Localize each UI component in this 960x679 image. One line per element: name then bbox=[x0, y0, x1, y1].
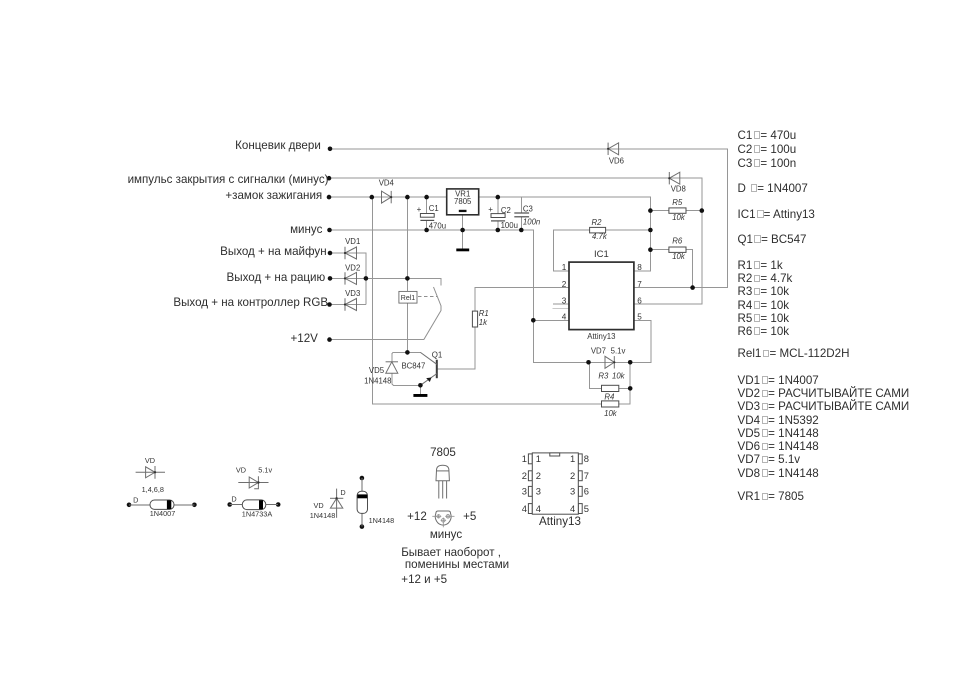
junction Q1 emitter bbox=[418, 383, 423, 388]
legend Attiny13 DIP-8 body bbox=[528, 453, 582, 514]
junction diode apex dots bbox=[154, 148, 671, 500]
svg-text:VD: VD bbox=[145, 456, 155, 465]
node Концевик input bbox=[328, 147, 333, 152]
wire VD2 output row bbox=[330, 278, 441, 285]
op-amp IC1 box (Attiny13) bbox=[569, 249, 634, 341]
resistor R3 bbox=[602, 385, 619, 391]
node RGB input bbox=[327, 302, 332, 307]
junction pin7 R6 bbox=[690, 285, 695, 290]
junction VD2 row coil bbox=[405, 276, 410, 281]
svg-text:+: + bbox=[417, 205, 422, 214]
svg-text:VD8: VD8 bbox=[671, 184, 686, 193]
svg-text:D: D bbox=[340, 488, 345, 497]
legend 1N4148 package vertical bbox=[357, 476, 394, 529]
svg-text:Attiny13: Attiny13 bbox=[587, 332, 615, 341]
legend note line 3 bbox=[401, 572, 447, 587]
svg-text:8: 8 bbox=[637, 263, 642, 272]
wire R6 row bbox=[650, 250, 692, 288]
svg-text:D: D bbox=[231, 494, 236, 503]
svg-text:5: 5 bbox=[637, 313, 642, 322]
wire R3 right bbox=[619, 387, 630, 389]
voltage regulator VR1 box bbox=[447, 189, 479, 215]
legend 7805 TO-92 bottom view bbox=[432, 511, 454, 527]
junction R5 left bbox=[648, 208, 653, 213]
node label Выход + на майфун bbox=[220, 244, 326, 259]
node майфун input bbox=[328, 251, 333, 256]
wire VD5 Q1 loop bottom bbox=[392, 373, 421, 385]
svg-text:5: 5 bbox=[584, 503, 589, 514]
svg-text:R6: R6 bbox=[672, 237, 683, 246]
diode VD5 bbox=[386, 362, 398, 373]
svg-text:BC847: BC847 bbox=[401, 362, 425, 371]
relay Rel1 actuator dashed link bbox=[418, 295, 437, 297]
junction R6 left bbox=[648, 247, 653, 252]
diode VD4 bbox=[382, 191, 392, 203]
svg-text:5.1v: 5.1v bbox=[611, 347, 626, 356]
junction C2 bottom bbox=[496, 228, 501, 233]
svg-text:1N4148: 1N4148 bbox=[364, 376, 391, 385]
svg-text:+: + bbox=[488, 205, 493, 214]
svg-text:1: 1 bbox=[562, 263, 567, 272]
legend label +5 bbox=[463, 509, 476, 524]
svg-text:R3: R3 bbox=[598, 372, 609, 381]
junction R2 right bbox=[648, 228, 653, 233]
svg-text:1N4733A: 1N4733A bbox=[242, 510, 273, 519]
svg-text:4: 4 bbox=[562, 313, 567, 322]
svg-text:2: 2 bbox=[536, 470, 541, 481]
svg-text:R5: R5 bbox=[672, 198, 683, 207]
wire R4 right to VD7 node bbox=[619, 362, 630, 404]
wire VD5 Q1 loop top bbox=[392, 352, 421, 361]
node импульс input bbox=[327, 176, 332, 181]
svg-text:VD: VD bbox=[314, 501, 324, 510]
wire R5 row bbox=[650, 210, 701, 212]
node label +замок зажигания bbox=[225, 188, 322, 203]
diode VD3 bbox=[345, 298, 357, 310]
junction замок-coil bbox=[405, 195, 410, 200]
junction VD7 left bbox=[586, 360, 591, 365]
svg-text:7: 7 bbox=[584, 470, 589, 481]
legend diode symbol VD 1N4007 bbox=[136, 466, 165, 479]
svg-text:1: 1 bbox=[536, 453, 541, 464]
wire R3 row bbox=[590, 362, 602, 388]
wire R1 to Q1 base bbox=[437, 327, 475, 369]
svg-text:1N4148: 1N4148 bbox=[310, 511, 336, 520]
svg-text:10k: 10k bbox=[672, 252, 686, 261]
svg-text:3: 3 bbox=[536, 486, 541, 497]
wire C3 stubs bbox=[520, 197, 522, 213]
svg-text:C2: C2 bbox=[501, 206, 511, 215]
parts list bbox=[738, 128, 797, 143]
resistor R2 bbox=[590, 227, 606, 233]
node замок input bbox=[327, 195, 332, 200]
svg-text:R1: R1 bbox=[479, 309, 489, 318]
node label импульс закрытия bbox=[128, 172, 329, 187]
diode VD7 bbox=[605, 356, 614, 368]
node label минус bbox=[290, 222, 322, 237]
wire pin 4 bbox=[533, 319, 569, 321]
svg-text:D: D bbox=[133, 496, 138, 505]
svg-text:2: 2 bbox=[570, 470, 575, 481]
node +12V input bbox=[327, 337, 332, 342]
wire pin 3 stub bbox=[553, 303, 569, 305]
wire VD1 output row bbox=[330, 253, 366, 305]
svg-text:4: 4 bbox=[570, 503, 575, 514]
wire relay coil vertical bbox=[406, 197, 408, 291]
legend label минус bbox=[416, 527, 476, 542]
svg-text:10k: 10k bbox=[604, 409, 618, 418]
svg-text:VD5: VD5 bbox=[369, 366, 385, 375]
svg-text:1: 1 bbox=[570, 453, 575, 464]
wire coil to Q1 collector node bbox=[406, 303, 408, 352]
svg-text:7805: 7805 bbox=[454, 197, 472, 206]
svg-text:R2: R2 bbox=[592, 218, 603, 227]
junction VR1 gnd bbox=[460, 228, 465, 233]
svg-text:1k: 1k bbox=[479, 318, 488, 327]
junction VD1 VD2 common bbox=[364, 276, 369, 281]
node минус input bbox=[327, 228, 332, 233]
svg-text:C1: C1 bbox=[429, 204, 439, 213]
node label +12V bbox=[291, 331, 318, 346]
legend 7805 TO-92 front view bbox=[436, 465, 449, 498]
svg-text:VD: VD bbox=[236, 465, 246, 474]
diode VD8 bbox=[669, 172, 680, 184]
svg-text:VD7: VD7 bbox=[591, 347, 606, 356]
svg-text:1,4,6,8: 1,4,6,8 bbox=[142, 485, 164, 494]
svg-text:1: 1 bbox=[522, 453, 527, 464]
svg-text:2: 2 bbox=[562, 280, 567, 289]
legend label 7805 bbox=[413, 445, 473, 460]
legend diode symbol VD 1N4148 vertical bbox=[330, 489, 343, 518]
svg-text:VD2: VD2 bbox=[345, 263, 360, 272]
wire VD3 output row bbox=[330, 304, 366, 306]
transistor Q1 bbox=[420, 352, 436, 385]
svg-text:VD4: VD4 bbox=[379, 178, 395, 187]
legend note line 1 bbox=[401, 545, 501, 560]
ground below VR1 bbox=[456, 249, 469, 252]
wire Q1 ground stub bbox=[419, 385, 421, 394]
resistor R5 bbox=[669, 208, 686, 213]
node рация input bbox=[328, 276, 333, 281]
svg-text:470u: 470u bbox=[429, 222, 446, 231]
svg-text:4: 4 bbox=[536, 503, 541, 514]
svg-text:Q1: Q1 bbox=[432, 350, 443, 359]
wire pin 2 to R1 bbox=[475, 288, 569, 312]
legend zener symbol VD 5.1v bbox=[238, 476, 268, 489]
svg-text:IC1: IC1 bbox=[594, 249, 609, 260]
junction R3 right bbox=[628, 386, 633, 391]
ground below Q1 bbox=[413, 394, 427, 397]
junction C1 top bbox=[424, 195, 429, 200]
svg-text:2: 2 bbox=[522, 470, 527, 481]
svg-text:4.7k: 4.7k bbox=[592, 232, 608, 241]
wire C2 stubs bbox=[497, 197, 499, 214]
svg-text:7: 7 bbox=[637, 280, 642, 289]
diode VD6 bbox=[608, 143, 619, 155]
svg-text:C3: C3 bbox=[523, 204, 533, 213]
diode VD2 bbox=[345, 272, 357, 284]
diode VD1 bbox=[345, 247, 357, 259]
svg-text:6: 6 bbox=[637, 296, 642, 305]
legend label +12 bbox=[377, 509, 427, 524]
wire C1 stubs bbox=[426, 197, 428, 213]
svg-text:3: 3 bbox=[522, 486, 527, 497]
node label Выход + на контроллер RGB bbox=[173, 295, 328, 310]
junction C3 bottom bbox=[519, 228, 524, 233]
svg-text:8: 8 bbox=[584, 453, 589, 464]
junction R5 right bbox=[700, 208, 705, 213]
junction C1 bottom bbox=[424, 228, 429, 233]
svg-text:VD3: VD3 bbox=[345, 289, 360, 298]
junction замок-xA bbox=[370, 195, 375, 200]
junction coil collector bbox=[405, 350, 410, 355]
svg-text:100u: 100u bbox=[501, 221, 518, 230]
node label Концевик двери bbox=[235, 138, 321, 153]
capacitor C2 bbox=[488, 205, 518, 230]
legend 1N4733A package bbox=[227, 494, 280, 518]
legend label Attiny13 bbox=[525, 514, 595, 529]
svg-text:1N4007: 1N4007 bbox=[150, 509, 176, 518]
svg-text:4: 4 bbox=[522, 503, 527, 514]
relay Rel1 contact blade bbox=[424, 287, 441, 340]
svg-text:6: 6 bbox=[584, 486, 589, 497]
wire +12V row bbox=[330, 339, 424, 341]
svg-text:100n: 100n bbox=[523, 217, 540, 226]
svg-text:3: 3 bbox=[570, 486, 575, 497]
wire +5 rail bbox=[479, 197, 651, 271]
wire VR1 ground stub bbox=[462, 215, 464, 249]
svg-text:3: 3 bbox=[562, 296, 567, 305]
capacitor C3 bbox=[514, 204, 540, 226]
svg-text:VD6: VD6 bbox=[609, 156, 624, 165]
resistor R4 bbox=[602, 401, 619, 407]
svg-text:5.1v: 5.1v bbox=[258, 465, 272, 474]
node label Выход + на рацию bbox=[227, 270, 326, 285]
wire замок row bbox=[330, 196, 447, 198]
wire Концевик двери row bbox=[330, 149, 728, 288]
svg-text:10k: 10k bbox=[612, 372, 626, 381]
wire R2 row to pin 1 bbox=[553, 230, 650, 271]
svg-text:10k: 10k bbox=[672, 213, 686, 222]
svg-text:Rel1: Rel1 bbox=[401, 295, 416, 302]
wire unregulated +12 down and R4 row bbox=[373, 197, 602, 404]
junction pin4 minus bbox=[531, 318, 536, 323]
legend note line 2 bbox=[405, 557, 509, 572]
legend 1N4007 package bbox=[127, 496, 197, 518]
junction C2 top bbox=[496, 195, 501, 200]
svg-text:R4: R4 bbox=[604, 392, 615, 401]
wire импульс row bbox=[330, 178, 702, 304]
capacitor C1 bbox=[417, 204, 446, 231]
relay Rel1 box bbox=[399, 291, 417, 303]
svg-text:VD1: VD1 bbox=[345, 237, 360, 246]
resistor R1 bbox=[472, 311, 477, 327]
resistor R6 bbox=[669, 247, 686, 252]
junction VD7 right bbox=[628, 360, 633, 365]
wire минус rail bbox=[330, 230, 651, 362]
